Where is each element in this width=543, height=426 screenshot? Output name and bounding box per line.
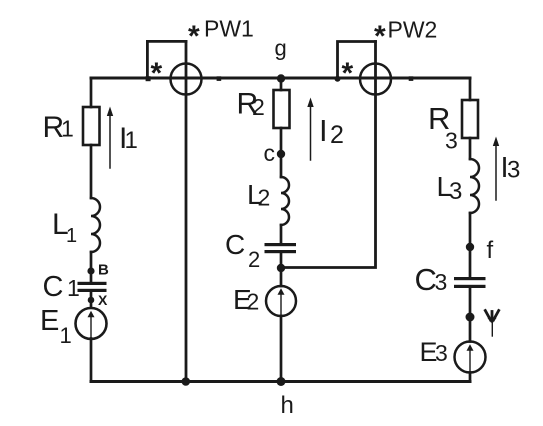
source E1 (76, 308, 107, 339)
svg-text:1: 1 (125, 127, 138, 154)
label I2 (319, 113, 344, 149)
wire C1 to E1 (90, 292, 93, 308)
label I3 (501, 152, 521, 184)
svg-text:I: I (319, 113, 328, 148)
junction dot left of PW1 (146, 76, 151, 81)
label R3 (428, 101, 458, 154)
svg-text:*: * (374, 20, 386, 53)
wattmeter PW2 circle (360, 64, 391, 95)
svg-text:3: 3 (449, 178, 462, 205)
wattmeter PW1 coil wire down to bottom rail (185, 41, 188, 381)
node B (87, 267, 94, 274)
resistor R1 (83, 107, 100, 145)
resistor R3 (462, 100, 478, 138)
label E1 (40, 305, 72, 348)
svg-text:C: C (225, 229, 245, 260)
wire L1 to C1 (90, 252, 93, 282)
wire right branch top segment (469, 78, 472, 100)
wire left branch top segment (90, 78, 93, 107)
label R2 (237, 88, 265, 121)
label I1 (119, 122, 138, 155)
wire E1 to bottom rail (90, 339, 93, 382)
label C1 (43, 271, 80, 303)
label E2 (233, 284, 259, 315)
svg-text:3: 3 (435, 269, 448, 295)
current arrow I2 (307, 98, 313, 161)
svg-text:3: 3 (507, 157, 520, 184)
wattmeter PW2 voltage loop rectangle (338, 42, 376, 80)
junction dot left of PW2 (335, 76, 341, 82)
node X (88, 297, 95, 304)
svg-text:2: 2 (252, 94, 265, 120)
resistor R2 (274, 90, 290, 128)
capacitor C2 (265, 243, 297, 253)
label R1 (43, 111, 74, 144)
svg-text:PW1: PW1 (204, 16, 254, 42)
svg-text:B: B (98, 262, 109, 279)
svg-text:E: E (40, 305, 59, 337)
node dot PW1 coil at bottom rail (182, 377, 191, 386)
svg-text:2: 2 (258, 185, 271, 211)
svg-text:2: 2 (248, 247, 260, 272)
wire L2 to C2 (280, 225, 283, 243)
wire bottom rail h-node bus (91, 380, 470, 383)
label C3 (415, 262, 448, 297)
node below C2 (277, 264, 285, 272)
node f (466, 243, 474, 251)
capacitor C1 (78, 282, 107, 292)
current arrow I1 (107, 107, 113, 169)
flux symbol psi near E3 (485, 311, 498, 337)
wire R3 to L3 (469, 138, 472, 159)
wire L3 to C3 (469, 213, 472, 277)
node g junction dot (277, 74, 285, 82)
wire top rail g-node bus (91, 77, 470, 80)
label C2 (225, 229, 260, 272)
current arrow I3 (493, 137, 499, 201)
svg-text:f: f (487, 237, 494, 264)
capacitor C3 (454, 277, 486, 288)
label L2 (247, 179, 270, 211)
svg-text:h: h (281, 392, 294, 419)
wire C2 to E2 (280, 253, 283, 286)
wire middle branch top segment (280, 78, 283, 90)
wattmeter PW2 coil wire down to C2-E2 node (281, 42, 376, 268)
node c (277, 150, 285, 158)
wattmeter PW1 circle (171, 64, 202, 95)
wire R1 to L1 (90, 145, 93, 198)
wattmeter PW1 voltage loop rectangle (147, 41, 186, 79)
svg-text:1: 1 (60, 323, 72, 348)
svg-text:1: 1 (66, 225, 77, 247)
junction dot right of PW2 (409, 76, 414, 81)
svg-text:X: X (98, 292, 108, 308)
wire R2 to L2 (280, 128, 283, 177)
svg-text:2: 2 (330, 121, 344, 149)
source E2 (266, 286, 296, 316)
node h junction dot (277, 377, 286, 386)
label L3 (437, 171, 463, 205)
wire E2 to bottom rail (280, 316, 283, 382)
svg-text:c: c (264, 140, 276, 166)
source E3 (455, 342, 486, 373)
junction dot right of PW1 (217, 76, 222, 81)
inductor L3 (470, 159, 479, 213)
svg-text:1: 1 (61, 116, 74, 142)
node below C3 (466, 313, 475, 322)
svg-text:C: C (43, 271, 64, 303)
svg-text:3: 3 (445, 128, 458, 154)
svg-text:g: g (275, 36, 287, 61)
label L1 (52, 208, 77, 247)
wire E3 to bottom rail (469, 373, 472, 382)
svg-text:1: 1 (67, 275, 80, 301)
inductor L1 (91, 198, 100, 252)
svg-text:2: 2 (247, 289, 260, 315)
wire C3 to E3 (469, 288, 472, 342)
svg-text:*: * (342, 57, 354, 90)
svg-text:3: 3 (435, 340, 448, 366)
svg-text:*: * (151, 57, 163, 90)
label E3 (420, 337, 448, 367)
inductor L2 (281, 177, 289, 225)
svg-text:PW2: PW2 (388, 17, 438, 43)
svg-text:*: * (188, 20, 200, 53)
